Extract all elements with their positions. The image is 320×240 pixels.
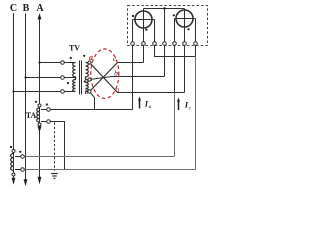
- svg-text:a: a: [89, 53, 93, 62]
- svg-text:a: a: [149, 104, 152, 110]
- svg-text:TV: TV: [69, 44, 80, 53]
- svg-text:A: A: [36, 3, 44, 14]
- svg-text:c: c: [189, 106, 192, 112]
- svg-text:B: B: [23, 3, 30, 14]
- svg-text:b: b: [114, 69, 118, 78]
- svg-text:TA: TA: [26, 111, 37, 120]
- svg-text:c: c: [113, 54, 117, 63]
- svg-text:a: a: [116, 85, 120, 94]
- svg-text:C: C: [10, 3, 17, 14]
